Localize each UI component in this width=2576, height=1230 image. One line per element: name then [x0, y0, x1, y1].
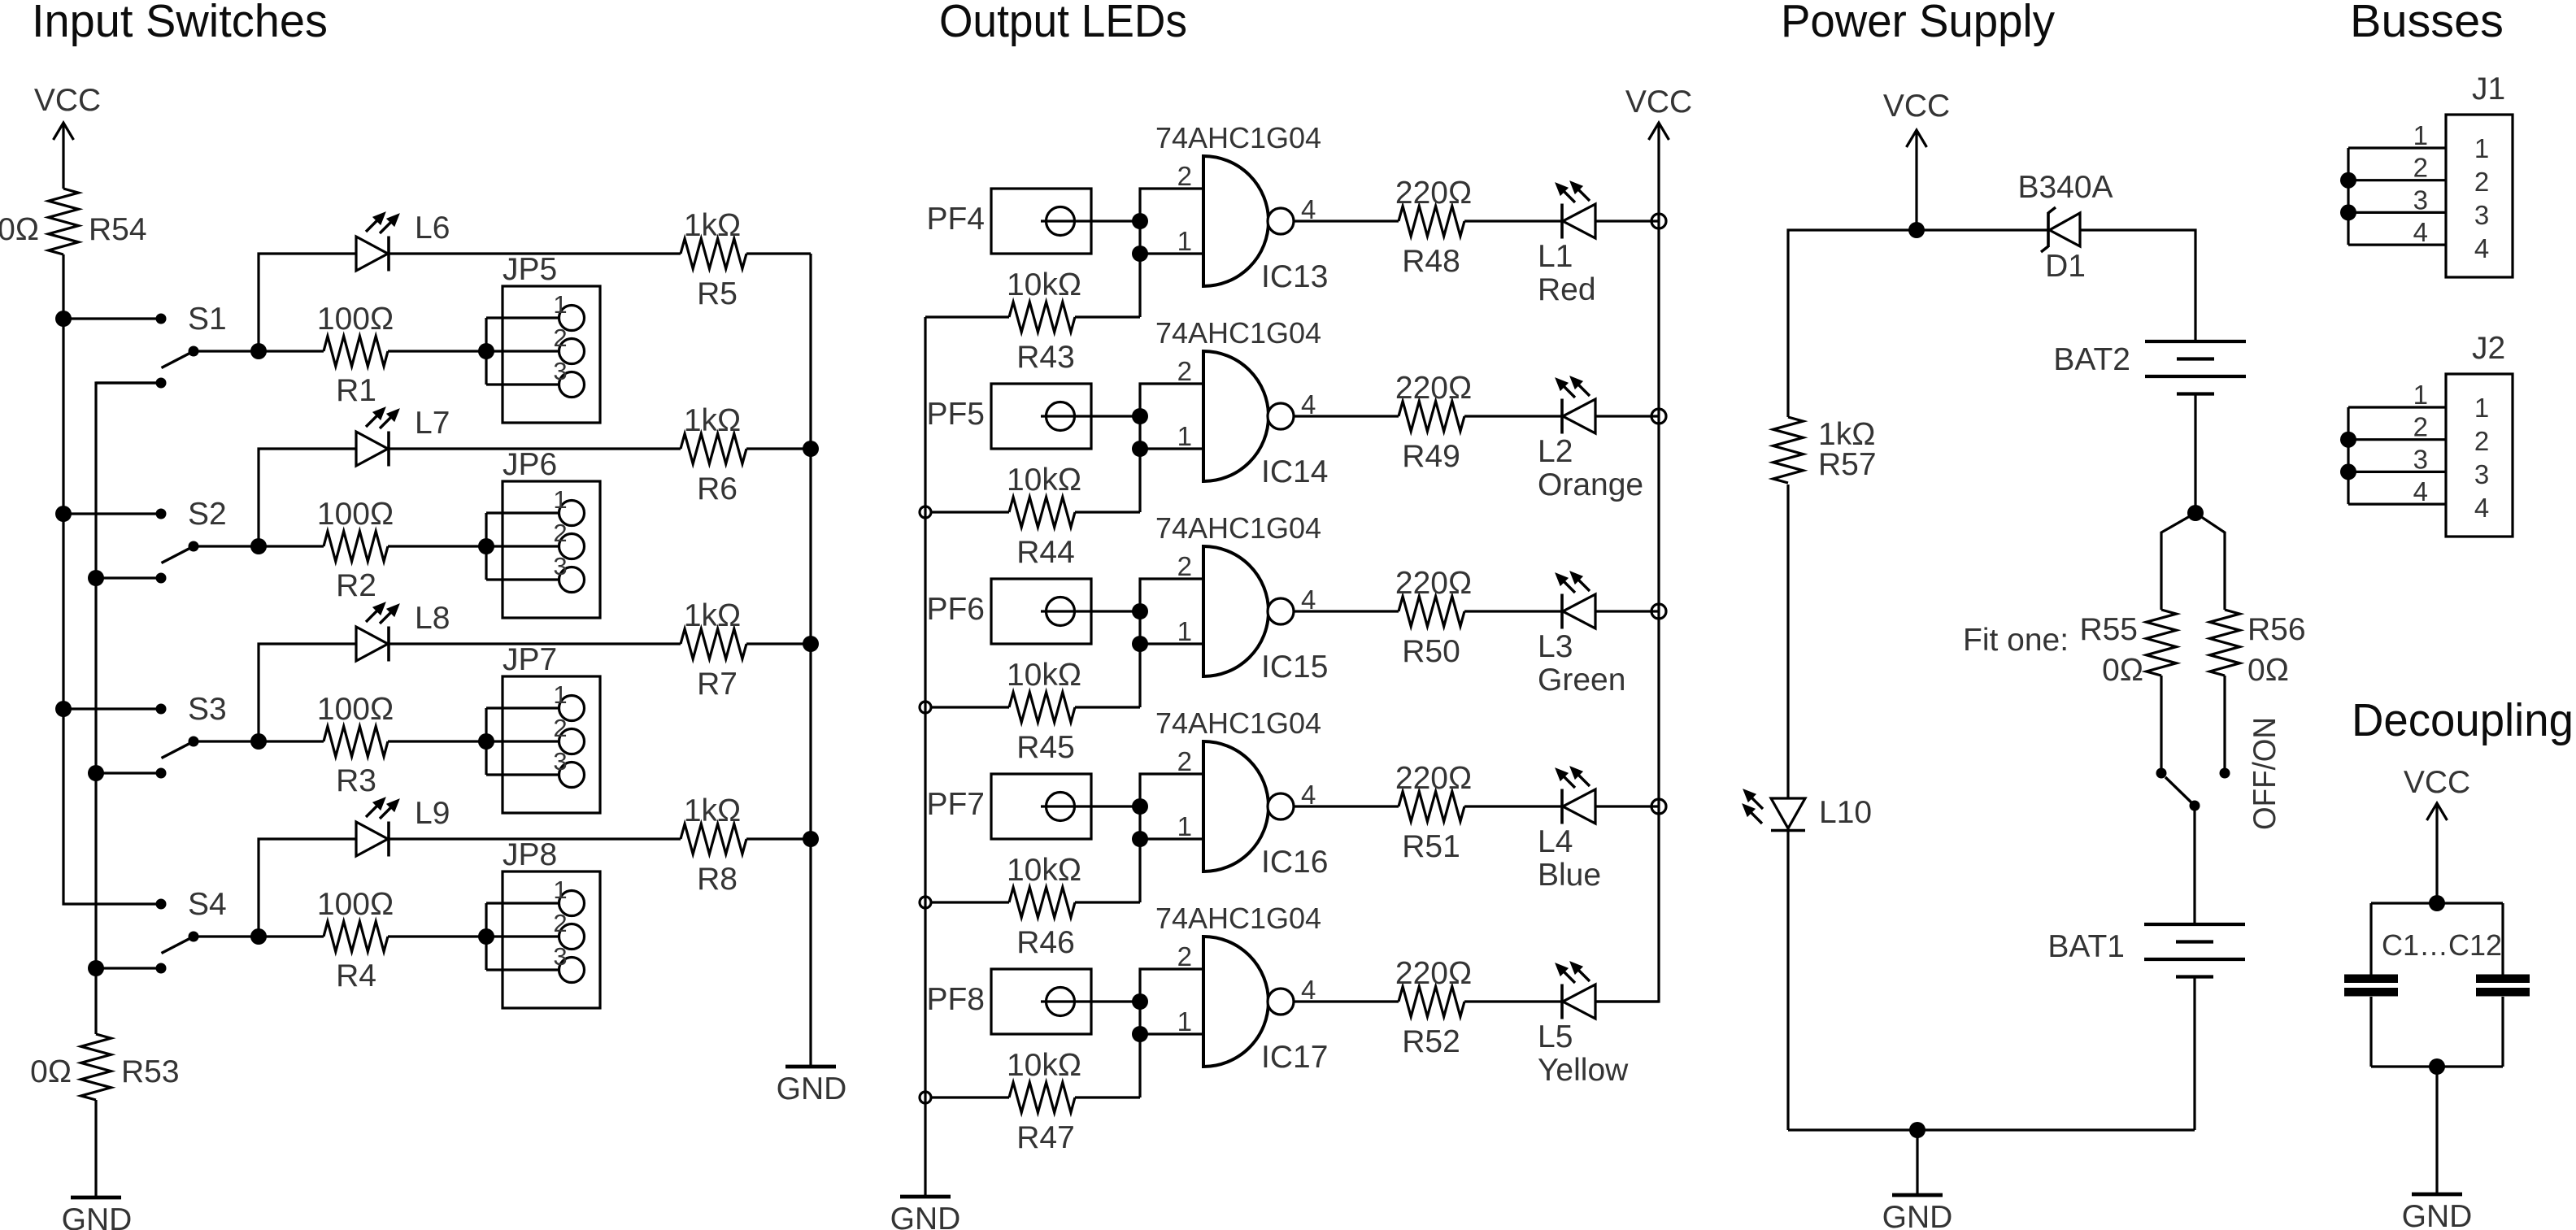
svg-text:Output LEDs: Output LEDs — [939, 0, 1187, 47]
svg-text:2: 2 — [553, 909, 567, 937]
svg-text:L6: L6 — [415, 211, 450, 246]
resistor R45 10kohm — [931, 706, 1009, 708]
svg-text:2: 2 — [1177, 161, 1192, 191]
wire LED L5 to VCC rail — [1595, 1000, 1659, 1002]
svg-text:R46: R46 — [1016, 925, 1075, 960]
ground (power supply) — [1892, 1193, 1943, 1197]
wire R57 to LED L10 — [1786, 485, 1789, 798]
svg-text:Red: Red — [1538, 272, 1596, 307]
svg-text:GND: GND — [62, 1202, 133, 1230]
wire R49 to LED L2 — [1464, 415, 1562, 417]
svg-text:JP6: JP6 — [503, 447, 557, 482]
svg-text:IC13: IC13 — [1261, 259, 1328, 294]
svg-text:Fit one:: Fit one: — [1963, 623, 2069, 658]
wire to IC17 pins — [1140, 969, 1203, 1097]
wire S3 pole to node — [194, 740, 259, 742]
wire R55 to switch contact — [2160, 676, 2162, 773]
svg-text:IC15: IC15 — [1261, 650, 1328, 685]
wire IC17 output to R52 — [1294, 1000, 1399, 1002]
inverter gate IC17 74AHC1G04 — [1203, 937, 1268, 1067]
resistor R7 1kohm — [681, 629, 746, 659]
connector J2 — [2446, 374, 2513, 537]
wire up to LED L6 row — [259, 254, 356, 351]
svg-text:2: 2 — [2413, 153, 2428, 183]
svg-text:S4: S4 — [188, 887, 227, 922]
wire R46 to gate input node — [1075, 901, 1140, 903]
testpoint PF8 — [991, 969, 1091, 1034]
wire branch to R55 — [2161, 513, 2195, 610]
svg-text:PF7: PF7 — [926, 787, 985, 822]
svg-text:GND: GND — [777, 1071, 847, 1106]
svg-text:1: 1 — [553, 290, 567, 319]
wire S4 bottom contact — [96, 967, 161, 969]
svg-text:S2: S2 — [188, 497, 227, 532]
node junction at LED branch L7 — [250, 538, 267, 554]
svg-text:1: 1 — [2474, 133, 2489, 163]
svg-text:0Ω: 0Ω — [2247, 653, 2289, 688]
svg-text:L1: L1 — [1538, 239, 1573, 274]
svg-text:4: 4 — [2474, 233, 2489, 263]
wire S2 bottom contact — [96, 576, 161, 579]
inverter gate IC15 74AHC1G04 — [1203, 546, 1268, 676]
svg-text:R56: R56 — [2247, 612, 2306, 647]
LED L6 — [356, 237, 388, 271]
svg-text:Power Supply: Power Supply — [1781, 0, 2055, 47]
svg-text:74AHC1G04: 74AHC1G04 — [1155, 902, 1321, 935]
svg-text:JP8: JP8 — [503, 837, 557, 872]
testpoint PF4 — [991, 189, 1091, 254]
svg-text:4: 4 — [2413, 217, 2428, 247]
VCC power symbol (input section) — [62, 124, 64, 189]
wire J1 bus bracket — [2347, 148, 2349, 245]
svg-text:100Ω: 100Ω — [317, 887, 394, 922]
svg-text:R44: R44 — [1016, 535, 1075, 570]
svg-text:R54: R54 — [89, 212, 147, 247]
wire R3 to jumper JP7 — [388, 740, 486, 742]
inverter gate IC14 74AHC1G04 — [1203, 351, 1268, 481]
wire R2 to jumper JP6 — [388, 545, 486, 547]
switch S3 — [63, 707, 161, 710]
LED L1 Red — [1563, 204, 1595, 238]
LED L5 Yellow — [1563, 984, 1595, 1019]
svg-text:R51: R51 — [1402, 829, 1460, 864]
resistor R50 220ohm — [1399, 597, 1464, 627]
capacitor C1...C12 left — [2344, 975, 2398, 984]
node junction at JP6 bracket — [478, 538, 494, 554]
svg-text:R47: R47 — [1016, 1120, 1075, 1155]
wire left VCC rail — [63, 319, 161, 904]
wire R1 to jumper JP5 — [388, 350, 486, 352]
junction dots J1 bus — [2340, 172, 2356, 189]
svg-text:L9: L9 — [415, 796, 450, 831]
svg-text:1: 1 — [553, 680, 567, 709]
wire power top rail left — [1788, 230, 2048, 417]
svg-text:3: 3 — [2474, 200, 2489, 230]
wire LED L8 to resistor R7 — [389, 642, 681, 645]
svg-text:220Ω: 220Ω — [1395, 566, 1472, 601]
svg-text:S3: S3 — [188, 692, 227, 727]
wire power top rail right — [2080, 230, 2195, 341]
svg-text:R1: R1 — [336, 373, 376, 408]
wire decoupling left leg — [2369, 903, 2372, 975]
svg-text:PF8: PF8 — [926, 982, 985, 1017]
svg-text:Orange: Orange — [1538, 467, 1643, 502]
svg-text:1: 1 — [553, 876, 567, 904]
node junctions at IC15 inputs — [1132, 603, 1148, 619]
wire S2 pole to node — [194, 545, 259, 547]
LED L8 — [356, 627, 388, 661]
testpoint PF6 — [991, 579, 1091, 644]
svg-text:2: 2 — [553, 714, 567, 742]
wire R43 to gate input node — [1075, 315, 1140, 318]
svg-text:R57: R57 — [1818, 447, 1877, 482]
wire LED L7 to resistor R6 — [389, 447, 681, 450]
wire R5 to GND rail — [746, 252, 811, 254]
svg-text:J2: J2 — [2472, 331, 2505, 366]
wire LED L1 to VCC rail — [1595, 219, 1659, 222]
jumper JP8 — [503, 871, 600, 1008]
svg-text:74AHC1G04: 74AHC1G04 — [1155, 511, 1321, 545]
jumper JP6 — [503, 481, 600, 618]
resistor R51 220ohm — [1399, 792, 1464, 822]
svg-text:R7: R7 — [697, 667, 738, 702]
resistor R47 10kohm — [931, 1096, 1009, 1098]
wire stub to ground (decoupling) — [2435, 1067, 2438, 1194]
wire right GND rail of input section — [809, 254, 812, 1067]
LED L2 Orange — [1563, 399, 1595, 433]
wire IC13 output to R48 — [1294, 219, 1399, 222]
svg-text:1: 1 — [2413, 380, 2428, 410]
wire branch to R56 — [2195, 513, 2225, 610]
wire LED L2 to VCC rail — [1595, 415, 1659, 417]
svg-text:R8: R8 — [697, 862, 738, 897]
wire R54 to rail — [62, 254, 64, 319]
svg-text:1kΩ: 1kΩ — [684, 598, 741, 633]
svg-text:2: 2 — [2413, 412, 2428, 442]
svg-text:L5: L5 — [1538, 1019, 1573, 1054]
svg-text:B340A: B340A — [2017, 170, 2113, 205]
wire BAT1 to bottom rail — [2193, 977, 2195, 1131]
svg-text:L4: L4 — [1538, 824, 1573, 859]
wire J2 bus bracket — [2347, 407, 2349, 504]
battery BAT1 — [2144, 923, 2245, 926]
resistor R57 1kohm — [1773, 417, 1804, 483]
VCC power symbol (decoupling) — [2435, 805, 2438, 903]
svg-text:1kΩ: 1kΩ — [684, 403, 741, 438]
svg-text:BAT1: BAT1 — [2047, 929, 2125, 964]
resistor R43 10kohm — [925, 315, 1009, 318]
node junction at JP5 bracket — [478, 343, 494, 359]
wire R4 to jumper JP8 — [388, 935, 486, 937]
diode D1 B340A schottky — [2050, 213, 2081, 246]
svg-text:0Ω: 0Ω — [30, 1054, 72, 1089]
rail connection ring at L4 row — [1651, 799, 1666, 814]
svg-text:R6: R6 — [697, 472, 738, 506]
svg-text:L7: L7 — [415, 406, 450, 441]
svg-text:2: 2 — [1177, 941, 1192, 971]
svg-text:OFF/ON: OFF/ON — [2247, 717, 2282, 830]
svg-text:10kΩ: 10kΩ — [1007, 267, 1081, 302]
switch S4 — [156, 899, 167, 910]
svg-text:2: 2 — [553, 324, 567, 352]
svg-text:2: 2 — [1177, 746, 1192, 776]
svg-text:10kΩ: 10kΩ — [1007, 1048, 1081, 1083]
ground (input right rail) — [785, 1065, 836, 1069]
node junctions at IC13 inputs — [1132, 213, 1148, 229]
rail connection rings (output left rail) — [920, 506, 931, 518]
wire S1 pole to node — [194, 350, 259, 352]
svg-text:Decoupling: Decoupling — [2352, 694, 2574, 746]
svg-text:74AHC1G04: 74AHC1G04 — [1155, 121, 1321, 154]
svg-text:BAT2: BAT2 — [2053, 342, 2130, 377]
wire to IC14 pins — [1140, 384, 1203, 512]
wire R51 to LED L4 — [1464, 805, 1562, 807]
wire R45 to gate input node — [1075, 706, 1140, 708]
svg-text:1: 1 — [2474, 393, 2489, 423]
svg-text:JP7: JP7 — [503, 642, 557, 677]
svg-text:100Ω: 100Ω — [317, 692, 394, 727]
svg-text:PF6: PF6 — [926, 592, 985, 627]
svg-text:1kΩ: 1kΩ — [684, 208, 741, 243]
wire decoupling right leg — [2501, 903, 2504, 975]
junction dots on bottom-contact chain — [88, 570, 104, 586]
wire pole node to resistor R3 — [259, 740, 324, 742]
switch S2 — [63, 512, 161, 515]
testpoint PF5 — [991, 384, 1091, 449]
svg-text:R5: R5 — [697, 276, 738, 311]
svg-text:R52: R52 — [1402, 1024, 1460, 1059]
junction dots on left rail — [55, 311, 72, 327]
node junction decoupling top — [2429, 895, 2445, 911]
wires J2 pins — [2348, 406, 2446, 408]
wire pole node to resistor R2 — [259, 545, 324, 547]
svg-text:C1…C12: C1…C12 — [2382, 928, 2502, 962]
svg-text:10kΩ: 10kΩ — [1007, 658, 1081, 693]
node junctions at IC16 inputs — [1132, 798, 1148, 815]
svg-text:1kΩ: 1kΩ — [684, 793, 741, 828]
VCC power symbol (output section) — [1657, 124, 1660, 221]
svg-text:4: 4 — [2413, 476, 2428, 506]
wire up to LED L7 row — [259, 449, 356, 546]
wire BAT2 to branch node — [2194, 394, 2196, 514]
svg-text:2: 2 — [553, 519, 567, 547]
LED L10 — [1771, 798, 1805, 828]
resistor R8 1kohm — [681, 824, 746, 854]
node junction at LED branch L8 — [250, 733, 267, 750]
wire S4 pole to node — [194, 935, 259, 937]
resistor R53 0ohm vertical — [81, 1034, 111, 1100]
rail connection ring at L3 row — [1651, 604, 1666, 619]
svg-text:R50: R50 — [1402, 634, 1460, 669]
wire R44 to gate input node — [1075, 511, 1140, 513]
svg-text:74AHC1G04: 74AHC1G04 — [1155, 706, 1321, 740]
resistor R49 220ohm — [1399, 402, 1464, 432]
svg-text:L2: L2 — [1538, 434, 1573, 469]
svg-text:2: 2 — [1177, 551, 1192, 581]
wire up to LED L9 row — [259, 839, 356, 937]
node junctions at IC17 inputs — [1132, 993, 1148, 1010]
wire pole node to resistor R4 — [259, 935, 324, 937]
node junction at power ground — [1909, 1122, 1925, 1138]
wire output VCC rail — [1595, 221, 1659, 1002]
svg-text:R3: R3 — [336, 763, 376, 798]
capacitor C1...C12 right — [2476, 975, 2530, 984]
rail connection ring at L2 row — [1651, 409, 1666, 424]
resistor R5 1kohm — [681, 239, 746, 269]
inverter gate IC16 74AHC1G04 — [1203, 741, 1268, 871]
wire to IC13 pins — [1140, 189, 1203, 317]
LED L7 — [356, 432, 388, 466]
wire to IC16 pins — [1140, 774, 1203, 902]
svg-text:Green: Green — [1538, 663, 1625, 698]
svg-text:VCC: VCC — [1883, 89, 1950, 124]
svg-text:1: 1 — [1177, 1006, 1192, 1037]
svg-text:100Ω: 100Ω — [317, 497, 394, 532]
testpoint PF7 — [991, 774, 1091, 839]
svg-text:1: 1 — [1177, 226, 1192, 256]
wire switch pole to BAT1 — [2193, 806, 2195, 924]
wire R7 to GND rail — [746, 642, 811, 645]
wire R53 to ground — [94, 1100, 97, 1197]
resistor R48 220ohm — [1399, 206, 1464, 237]
svg-text:3: 3 — [553, 552, 567, 580]
wire IC15 output to R50 — [1294, 610, 1399, 612]
node junctions at IC14 inputs — [1132, 408, 1148, 424]
svg-text:0Ω: 0Ω — [0, 212, 39, 247]
wire R56 to switch contact — [2223, 676, 2226, 773]
jumper JP7 — [503, 676, 600, 813]
switch S1 — [63, 317, 161, 319]
LED L4 Blue — [1563, 789, 1595, 824]
svg-text:3: 3 — [2413, 185, 2428, 215]
svg-text:R48: R48 — [1402, 244, 1460, 279]
svg-text:1: 1 — [1177, 616, 1192, 646]
wire R48 to LED L1 — [1464, 219, 1562, 222]
svg-text:IC14: IC14 — [1261, 454, 1328, 489]
svg-text:74AHC1G04: 74AHC1G04 — [1155, 316, 1321, 350]
svg-text:100Ω: 100Ω — [317, 302, 394, 337]
svg-text:1: 1 — [1177, 421, 1192, 451]
svg-text:D1: D1 — [2045, 249, 2086, 284]
wire R8 to GND rail — [746, 837, 811, 840]
svg-text:Input Switches: Input Switches — [32, 0, 328, 47]
svg-text:R55: R55 — [2079, 612, 2138, 647]
resistor R44 10kohm — [931, 511, 1009, 513]
wires J1 pins — [2348, 146, 2446, 149]
svg-text:220Ω: 220Ω — [1395, 761, 1472, 796]
svg-text:GND: GND — [1882, 1200, 1953, 1230]
jumper JP5 — [503, 286, 600, 423]
junction dots on input right rail — [803, 441, 819, 457]
svg-text:1: 1 — [553, 485, 567, 514]
node junction at power VCC — [1908, 222, 1925, 238]
wire pole node to resistor R1 — [259, 350, 324, 352]
svg-text:220Ω: 220Ω — [1395, 176, 1472, 211]
wire R6 to GND rail — [746, 447, 811, 450]
resistor R52 220ohm — [1399, 987, 1464, 1017]
svg-text:1: 1 — [1177, 811, 1192, 841]
node junction at JP7 bracket — [478, 733, 494, 750]
inverter gate IC13 74AHC1G04 — [1203, 156, 1268, 286]
node junction decoupling bottom — [2429, 1058, 2445, 1075]
svg-text:PF5: PF5 — [926, 397, 985, 432]
svg-text:220Ω: 220Ω — [1395, 371, 1472, 406]
svg-text:R2: R2 — [336, 568, 376, 603]
svg-text:R4: R4 — [336, 958, 376, 993]
svg-text:PF4: PF4 — [926, 202, 985, 237]
ground (decoupling) — [2412, 1193, 2462, 1197]
svg-text:Busses: Busses — [2350, 0, 2504, 47]
resistor R3 100ohm — [324, 727, 388, 757]
svg-text:10kΩ: 10kΩ — [1007, 853, 1081, 888]
connector J1 — [2446, 115, 2513, 277]
switch OFF/ON — [2156, 768, 2167, 779]
node junction at JP8 bracket — [478, 928, 494, 945]
wire R47 to gate input node — [1075, 1096, 1140, 1098]
wire IC14 output to R49 — [1294, 415, 1399, 417]
wire IC16 output to R51 — [1294, 805, 1399, 807]
node junction at LED branch L6 — [250, 343, 267, 359]
svg-text:10kΩ: 10kΩ — [1007, 463, 1081, 498]
wire R50 to LED L3 — [1464, 610, 1562, 612]
wire decoupling top — [2371, 902, 2503, 904]
svg-text:L3: L3 — [1538, 629, 1573, 664]
junction dots J2 bus — [2340, 432, 2356, 448]
svg-text:2: 2 — [2474, 167, 2489, 197]
svg-text:VCC: VCC — [1625, 85, 1692, 120]
svg-text:GND: GND — [2402, 1199, 2473, 1230]
svg-text:R53: R53 — [121, 1054, 180, 1089]
wire S1 bottom contact — [96, 381, 161, 384]
svg-text:JP5: JP5 — [503, 252, 557, 287]
svg-text:4: 4 — [2474, 493, 2489, 523]
resistor R2 100ohm — [324, 532, 388, 562]
svg-text:3: 3 — [2413, 444, 2428, 474]
svg-text:Blue: Blue — [1538, 858, 1601, 893]
wire stub to ground — [1916, 1130, 1918, 1195]
svg-text:VCC: VCC — [2404, 765, 2470, 800]
svg-text:220Ω: 220Ω — [1395, 956, 1472, 991]
svg-text:IC16: IC16 — [1261, 845, 1328, 880]
svg-text:J1: J1 — [2472, 72, 2505, 106]
ground (output section) — [900, 1195, 951, 1199]
wire LED L4 to VCC rail — [1595, 805, 1659, 807]
resistor R4 100ohm — [324, 922, 388, 952]
LED L3 Green — [1563, 594, 1595, 628]
svg-text:3: 3 — [2474, 459, 2489, 489]
resistor R55 0ohm — [2147, 610, 2177, 676]
svg-text:GND: GND — [890, 1202, 961, 1230]
VCC power symbol (power supply) — [1915, 132, 1917, 230]
wire decoupling bottom — [2371, 1065, 2503, 1067]
wire L10 to bottom rail — [1786, 830, 1789, 1130]
svg-text:1: 1 — [2413, 120, 2428, 150]
svg-text:2: 2 — [2474, 426, 2489, 456]
svg-text:3: 3 — [553, 747, 567, 776]
svg-text:Yellow: Yellow — [1538, 1053, 1629, 1088]
resistor R54 0ohm vertical — [49, 189, 79, 254]
wire LED L6 to resistor R5 — [389, 252, 681, 254]
svg-text:L8: L8 — [415, 601, 450, 636]
resistor R46 10kohm — [931, 901, 1009, 903]
battery BAT2 — [2145, 340, 2246, 343]
wire S3 bottom contact — [96, 771, 161, 774]
svg-text:3: 3 — [553, 357, 567, 385]
wire up to LED L8 row — [259, 644, 356, 741]
svg-text:2: 2 — [1177, 356, 1192, 386]
svg-text:R43: R43 — [1016, 340, 1075, 375]
node junction at LED branch L9 — [250, 928, 267, 945]
